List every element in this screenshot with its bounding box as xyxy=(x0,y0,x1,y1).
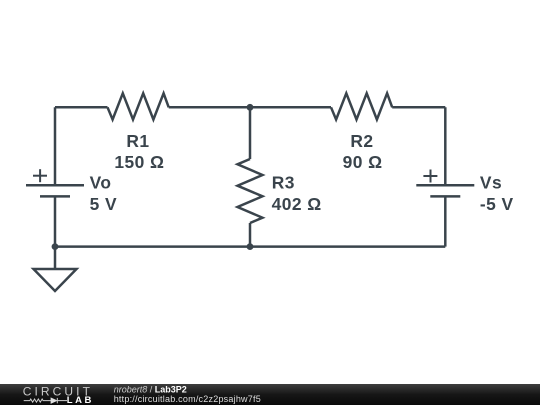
svg-text:5 V: 5 V xyxy=(90,194,117,214)
wire left vertical upper xyxy=(54,107,57,185)
wire left vertical lower xyxy=(54,196,57,246)
wire R3 stem top xyxy=(249,107,252,159)
node junction top (R1/R2/R3) xyxy=(247,104,254,111)
svg-text:402 Ω: 402 Ω xyxy=(272,194,322,214)
svg-text:http://circuitlab.com/c2z2psaj: http://circuitlab.com/c2z2psajhw7f5 xyxy=(114,394,261,404)
voltage source Vs plus sign xyxy=(423,170,437,183)
wire top-left horizontal xyxy=(55,106,108,109)
wire R3 stem bottom xyxy=(249,223,252,247)
wire bottom horizontal xyxy=(55,245,445,248)
svg-text:nrobert8 / Lab3P2: nrobert8 / Lab3P2 xyxy=(114,384,187,394)
svg-text:90 Ω: 90 Ω xyxy=(343,152,383,172)
ground xyxy=(34,269,77,291)
footer bar xyxy=(0,384,540,405)
wire top-middle horizontal xyxy=(169,106,331,109)
wire ground stem xyxy=(54,247,57,269)
wire right vertical lower xyxy=(444,196,447,246)
footer logo schematic line with resistor and diode xyxy=(24,398,67,403)
wire right vertical upper xyxy=(444,107,447,185)
svg-text:150 Ω: 150 Ω xyxy=(114,152,164,172)
voltage source Vo plus sign xyxy=(33,169,47,182)
svg-text:Vs: Vs xyxy=(480,172,502,192)
resistor R3 xyxy=(238,159,263,223)
resistor R1 xyxy=(108,93,169,119)
voltage source Vo battery plates xyxy=(26,185,84,196)
wire top-right horizontal xyxy=(392,106,445,109)
node junction ground xyxy=(52,243,59,250)
svg-text:R2: R2 xyxy=(350,131,373,151)
svg-text:LAB: LAB xyxy=(67,395,94,405)
svg-text:Vo: Vo xyxy=(90,172,112,192)
voltage source Vs battery plates xyxy=(416,185,474,196)
svg-text:R1: R1 xyxy=(126,131,149,151)
svg-text:R3: R3 xyxy=(272,172,295,192)
node junction bottom (R3/bottom wire) xyxy=(247,243,254,250)
resistor R2 xyxy=(331,93,392,119)
svg-text:-5 V: -5 V xyxy=(480,194,514,214)
